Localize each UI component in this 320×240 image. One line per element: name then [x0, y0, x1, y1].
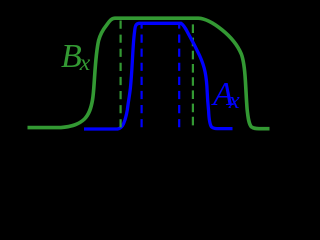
- green dashed line left (x=120.6): [119, 21, 121, 130]
- blue dashed line left (x=141.6): [141, 24, 143, 130]
- label A_x (blue): [213, 78, 240, 113]
- blue curve Ax: [84, 23, 233, 129]
- green curve Bx: [28, 18, 270, 129]
- blue dashed line right (x=179.2): [178, 24, 180, 131]
- green dashed line right (x=192.9): [192, 24, 194, 129]
- label B_x (green): [61, 40, 90, 76]
